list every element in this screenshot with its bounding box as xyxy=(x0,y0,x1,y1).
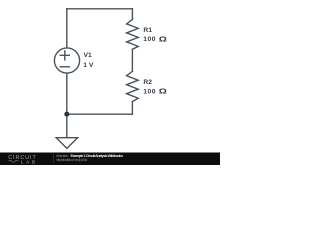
ground xyxy=(56,138,77,149)
svg-text:1 V: 1 V xyxy=(83,62,94,69)
watermark text line 1 xyxy=(56,154,123,162)
svg-text:100: 100 xyxy=(143,88,156,95)
svg-text:Ω: Ω xyxy=(159,35,167,43)
wire left vertical lower xyxy=(66,73,68,137)
node junction dot xyxy=(64,112,69,117)
wire left vertical upper xyxy=(66,9,68,48)
resistor R1 xyxy=(127,20,139,50)
logo wave xyxy=(9,160,19,162)
svg-text:http://circuitlab.com/c4pd3dd: http://circuitlab.com/c4pd3dd xyxy=(56,158,87,162)
V1 minus sign xyxy=(60,66,69,68)
svg-text:100: 100 xyxy=(143,36,156,43)
wire R2 bottom lead xyxy=(131,102,133,115)
wire right vertical lead R1 top xyxy=(131,9,133,20)
watermark bar xyxy=(0,153,220,166)
svg-text:R2: R2 xyxy=(143,79,152,86)
wire between R1 and R2 xyxy=(131,49,133,71)
resistor R2 xyxy=(127,71,139,101)
wire top horizontal xyxy=(67,8,133,10)
CircuitLab logo xyxy=(8,155,36,164)
wire bottom horizontal xyxy=(67,113,133,115)
svg-text:R1: R1 xyxy=(143,27,152,34)
V1 plus sign xyxy=(60,51,69,60)
svg-text:V1: V1 xyxy=(84,52,92,59)
separator xyxy=(52,154,55,163)
svg-text:LAB: LAB xyxy=(21,159,35,164)
voltage source V1 circle xyxy=(54,48,79,73)
svg-text:Ω: Ω xyxy=(159,87,167,95)
